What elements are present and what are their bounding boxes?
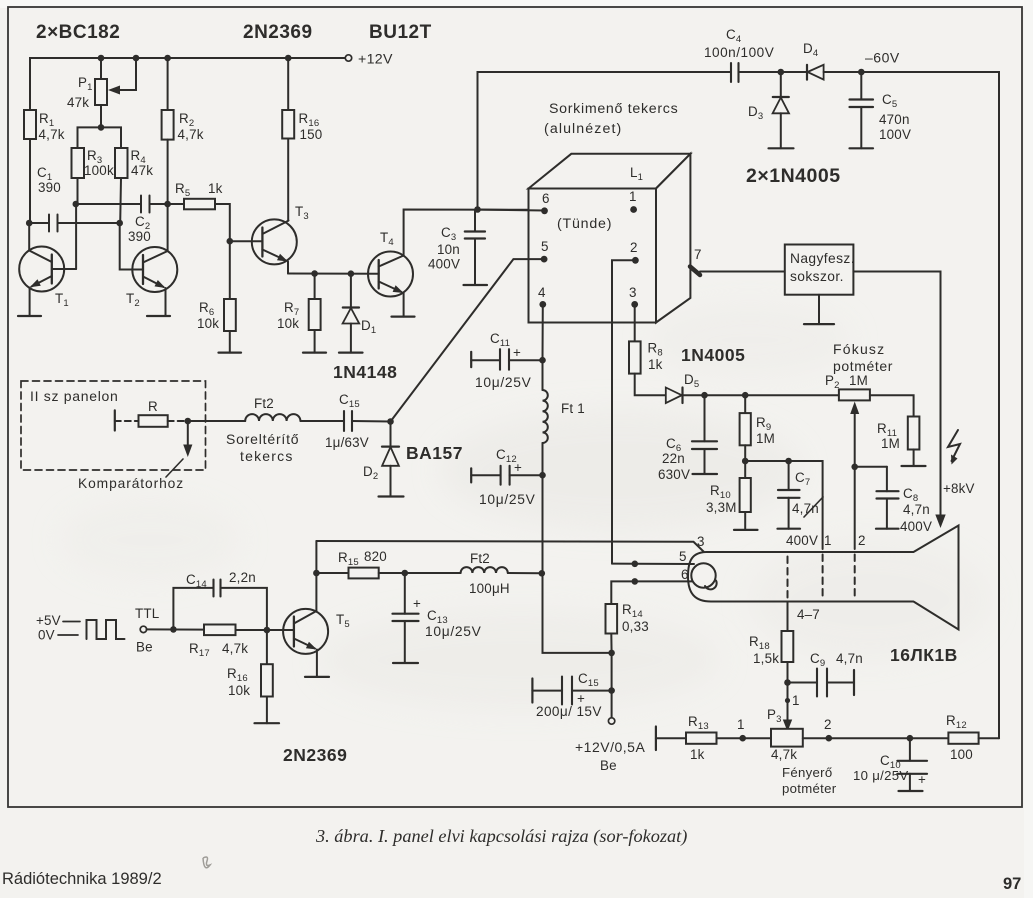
svg-text:10μ/25V: 10μ/25V xyxy=(479,492,536,507)
wire P2 wiper to pin2 column xyxy=(854,467,856,549)
wire -60V rail riser xyxy=(478,72,731,210)
wire collector row R15 xyxy=(316,572,348,574)
svg-text:3. ábra. I. panel elvi kapcsol: 3. ábra. I. panel elvi kapcsolási rajza … xyxy=(315,826,687,847)
node dots top rails xyxy=(26,55,865,277)
capacitor C6 xyxy=(692,395,717,474)
svg-text:4,7k: 4,7k xyxy=(222,641,248,656)
node dots middle xyxy=(185,357,859,479)
capacitor C1 xyxy=(49,215,120,232)
svg-text:6: 6 xyxy=(681,567,689,582)
svg-text:4,7n: 4,7n xyxy=(903,502,930,517)
svg-text:–60V: –60V xyxy=(865,50,900,66)
CRT 16LK1V envelope xyxy=(688,526,959,630)
svg-text:tekercs: tekercs xyxy=(240,448,294,464)
svg-text:potméter: potméter xyxy=(782,781,837,796)
svg-text:BA157: BA157 xyxy=(406,443,463,463)
capacitor C10 xyxy=(897,738,927,791)
node terminal +12V xyxy=(345,55,351,61)
transistor T2 xyxy=(120,204,178,316)
arrowhead HV at CRT xyxy=(935,515,945,529)
svg-text:3,3M: 3,3M xyxy=(706,500,737,515)
svg-text:1: 1 xyxy=(792,693,800,708)
transistor T3 xyxy=(230,219,297,273)
svg-text:TTL: TTL xyxy=(135,606,159,621)
svg-text:Ft2: Ft2 xyxy=(254,396,274,411)
capacitor C2 xyxy=(141,196,184,213)
svg-text:22n: 22n xyxy=(662,451,685,466)
resistor R16 10k xyxy=(261,630,273,723)
wire L1 pin 5 to diagonal xyxy=(391,259,545,421)
resistor R (II panel) xyxy=(139,415,168,427)
svg-text:10k: 10k xyxy=(228,683,250,698)
resistor R3 xyxy=(72,148,85,204)
svg-text:1: 1 xyxy=(824,533,832,548)
svg-text:+: + xyxy=(918,772,926,787)
wire to L1 pin 6 xyxy=(478,210,545,211)
svg-text:+5V: +5V xyxy=(36,613,61,628)
diode D3 xyxy=(773,72,789,148)
svg-text:47k: 47k xyxy=(67,95,89,110)
resistor R5 xyxy=(184,199,230,241)
resistor R15 xyxy=(349,568,405,579)
pin 7 stub xyxy=(690,267,700,276)
inductor Ft2 100uH xyxy=(461,567,508,573)
resistor R11 xyxy=(908,417,920,467)
svg-text:5: 5 xyxy=(541,239,549,254)
svg-text:Sorkimenő tekercs: Sorkimenő tekercs xyxy=(549,101,678,117)
svg-text:Be: Be xyxy=(600,758,617,773)
svg-text:2: 2 xyxy=(630,240,638,255)
transistor T5 xyxy=(283,609,328,677)
resistor R1 xyxy=(24,110,36,139)
dashed electrode 1 xyxy=(822,555,824,599)
diode D4 xyxy=(781,65,862,80)
svg-text:400V: 400V xyxy=(428,257,460,272)
smudge artifact xyxy=(203,857,210,868)
svg-text:potméter: potméter xyxy=(833,358,893,374)
svg-text:1k: 1k xyxy=(690,747,705,762)
svg-text:7: 7 xyxy=(694,247,702,262)
svg-text:R: R xyxy=(148,399,158,414)
svg-text:390: 390 xyxy=(128,229,151,244)
svg-text:100k: 100k xyxy=(84,163,114,178)
svg-text:Komparátorhoz: Komparátorhoz xyxy=(78,476,184,491)
svg-text:150: 150 xyxy=(300,127,323,142)
svg-text:820: 820 xyxy=(364,549,387,564)
svg-text:II sz panelon: II sz panelon xyxy=(30,388,119,404)
wire TTL to R17 xyxy=(147,628,204,630)
ground T1 xyxy=(18,315,41,317)
svg-text:400V: 400V xyxy=(786,533,818,548)
wire +12V top rail xyxy=(30,58,345,110)
ground D1 xyxy=(339,352,363,354)
inductor Ft2 deflection xyxy=(245,414,300,421)
node dots bottom left xyxy=(170,570,408,634)
wire CRT pin5 xyxy=(612,563,694,565)
svg-text:4,7k: 4,7k xyxy=(39,127,65,142)
ground R6 xyxy=(219,352,242,354)
transistor T4 xyxy=(368,210,543,317)
svg-text:10μ/25V: 10μ/25V xyxy=(475,375,532,390)
wire P1 to R3 R4 xyxy=(78,127,122,148)
resistor R10 xyxy=(740,461,751,530)
svg-text:Rádiótechnika 1989/2: Rádiótechnika 1989/2 xyxy=(2,870,162,888)
svg-text:+12V/0,5A: +12V/0,5A xyxy=(575,739,645,755)
wire node to Ft2 coil xyxy=(188,420,245,422)
svg-text:Ft2: Ft2 xyxy=(470,551,490,566)
wire oscillator upper (C2 row) xyxy=(76,203,140,205)
ground R10 xyxy=(734,529,758,531)
wire CRT pin6 to R14 xyxy=(611,581,692,604)
arrow to comparator xyxy=(166,421,192,477)
svg-text:10 μ/25V: 10 μ/25V xyxy=(853,768,908,783)
svg-text:Be: Be xyxy=(136,640,153,655)
capacitor C7 xyxy=(778,461,800,529)
CRT heater curl xyxy=(705,581,717,590)
ground multiplier xyxy=(804,323,834,325)
lightning bolt symbol xyxy=(948,430,960,461)
svg-text:100V: 100V xyxy=(879,127,911,142)
svg-text:470n: 470n xyxy=(879,112,910,127)
svg-text:97: 97 xyxy=(1003,875,1021,893)
resistor R12 xyxy=(948,733,999,744)
capacitor C14 loop xyxy=(173,580,267,631)
wire dashed R to node xyxy=(168,420,188,422)
potentiometer P3 xyxy=(771,729,948,747)
wire T-bar to R13 xyxy=(656,737,686,739)
terminal bar R13 left xyxy=(655,727,657,751)
svg-text:Fényerő: Fényerő xyxy=(782,765,832,780)
resistor R9 xyxy=(740,395,751,461)
svg-text:Ft 1: Ft 1 xyxy=(561,401,585,416)
terminal bar left of R xyxy=(114,410,116,430)
wire R1 lower lead xyxy=(29,139,31,223)
node dots CRT and bottom right xyxy=(539,561,914,742)
ground T4 xyxy=(392,316,415,318)
square wave symbol xyxy=(63,621,80,623)
potentiometer P1 xyxy=(95,58,136,127)
svg-text:630V: 630V xyxy=(658,467,690,482)
svg-text:6: 6 xyxy=(542,191,550,206)
wire R9 R10 node to C7 and pin1 xyxy=(745,461,822,549)
resistor R13 xyxy=(686,733,771,744)
ground C8 xyxy=(876,528,899,530)
svg-text:+: + xyxy=(413,596,421,611)
svg-text:5: 5 xyxy=(679,549,687,564)
svg-text:BU12T: BU12T xyxy=(369,22,432,43)
resistor R14 xyxy=(606,604,618,653)
svg-text:10k: 10k xyxy=(277,316,299,331)
svg-text:sokszor.: sokszor. xyxy=(790,269,844,284)
svg-text:1N4005: 1N4005 xyxy=(681,345,745,365)
transformer L1 box xyxy=(529,154,691,323)
svg-text:10μ/25V: 10μ/25V xyxy=(425,624,482,639)
capacitor C4 xyxy=(731,63,781,82)
wire coil to C15 xyxy=(301,420,344,422)
wire CRT pin3 (T5 collector line) xyxy=(316,541,704,552)
capacitor C5 xyxy=(850,72,874,148)
resistor R17 xyxy=(204,625,294,636)
svg-text:1: 1 xyxy=(737,717,745,732)
svg-text:100n/100V: 100n/100V xyxy=(704,45,774,60)
svg-text:2: 2 xyxy=(858,533,866,548)
svg-text:16ЛК1В: 16ЛК1В xyxy=(890,645,958,665)
svg-text:4–7: 4–7 xyxy=(797,607,820,622)
resistor R8 xyxy=(629,341,665,395)
HV multiplier box Nagyfesz sokszor xyxy=(785,245,854,295)
svg-text:1: 1 xyxy=(629,189,637,204)
resistor R7 xyxy=(309,274,321,353)
svg-text:1μ/63V: 1μ/63V xyxy=(325,435,369,450)
ground R7 xyxy=(303,352,326,354)
CRT heater circle xyxy=(691,563,715,587)
diode D2 BA157 xyxy=(382,422,399,497)
svg-text:+: + xyxy=(514,460,522,475)
svg-text:4,7n: 4,7n xyxy=(836,651,863,666)
svg-text:+8kV: +8kV xyxy=(943,481,975,496)
wire supply node to +12V terminal xyxy=(611,653,613,718)
wire oscillator lower (C1 row) xyxy=(29,222,48,224)
svg-text:2×1N4005: 2×1N4005 xyxy=(746,165,841,187)
wire T3 emitter row xyxy=(288,273,379,275)
svg-text:200μ/ 15V: 200μ/ 15V xyxy=(536,704,602,719)
svg-text:0V: 0V xyxy=(38,628,55,643)
label pointer slash C7 xyxy=(804,497,823,517)
potentiometer P2 xyxy=(839,389,914,466)
wire T5 collector riser xyxy=(315,541,317,611)
svg-text:(alulnézet): (alulnézet) xyxy=(544,121,622,137)
ground T5 xyxy=(305,676,329,678)
svg-text:4,7n: 4,7n xyxy=(792,501,819,516)
svg-text:1M: 1M xyxy=(756,431,775,446)
svg-text:1M: 1M xyxy=(881,436,900,451)
wire R18 to P3 wiper xyxy=(783,683,792,732)
svg-text:2×BC182: 2×BC182 xyxy=(36,22,120,43)
inductor Ft1 xyxy=(543,360,548,475)
svg-text:3: 3 xyxy=(697,534,705,549)
capacitor C8 xyxy=(877,467,899,529)
wire pin4 column down to supply corner xyxy=(543,475,612,653)
svg-text:+12V: +12V xyxy=(358,52,393,68)
svg-text:1,5k: 1,5k xyxy=(753,651,779,666)
ground C5 xyxy=(850,147,874,149)
svg-text:390: 390 xyxy=(38,180,61,195)
wire R15 to Ft2 xyxy=(405,572,461,574)
svg-text:2,2n: 2,2n xyxy=(229,570,256,585)
capacitor C9 xyxy=(788,669,855,697)
wire D5 to P2 xyxy=(705,394,839,396)
dashed box II sz panelon xyxy=(21,381,206,470)
capacitor C15 200u xyxy=(532,677,611,705)
wire L1 pin 2 riser down xyxy=(612,260,635,563)
resistor R2 xyxy=(162,58,174,204)
svg-text:4: 4 xyxy=(538,285,546,300)
diode D5 xyxy=(666,388,705,404)
wire -60V to right edge xyxy=(861,72,999,738)
transistor T1 xyxy=(19,204,76,316)
resistor R4 xyxy=(115,148,128,223)
svg-text:2N2369: 2N2369 xyxy=(243,22,313,43)
svg-text:Fókusz: Fókusz xyxy=(833,341,885,357)
svg-text:Nagyfesz.: Nagyfesz. xyxy=(790,251,855,266)
capacitor C3 xyxy=(465,210,485,286)
ground C7 xyxy=(778,528,801,530)
wire L1 pin 4 down xyxy=(542,304,544,360)
wire pin7 to multiplier box xyxy=(700,271,785,273)
ground C13 xyxy=(393,662,418,664)
svg-text:4,7k: 4,7k xyxy=(178,127,204,142)
resistor R6 xyxy=(224,241,236,352)
ground R11 xyxy=(902,465,926,467)
resistor R16 150 xyxy=(282,58,294,221)
svg-text:2N2369: 2N2369 xyxy=(283,745,347,765)
svg-text:1k: 1k xyxy=(208,181,223,196)
wire HV output to CRT anode xyxy=(853,272,940,519)
svg-text:0,33: 0,33 xyxy=(622,619,649,634)
wire dashed to R xyxy=(115,420,139,422)
resistor R18 xyxy=(782,631,794,683)
ground D2 xyxy=(379,495,404,497)
node L1 pin dots xyxy=(539,206,638,308)
svg-text:+: + xyxy=(513,345,521,360)
capacitor C13 xyxy=(393,573,419,663)
diode D1 xyxy=(343,274,360,353)
svg-text:1M: 1M xyxy=(849,373,868,388)
dashed electrode 4-7 xyxy=(787,557,789,599)
svg-text:2: 2 xyxy=(824,717,832,732)
dashed electrode 2 xyxy=(854,555,856,599)
capacitor C12 xyxy=(471,466,542,485)
svg-text:1N4148: 1N4148 xyxy=(333,362,397,382)
wire Ft2 to supply column xyxy=(508,572,542,574)
wire multiplier ground stub xyxy=(818,295,820,324)
capacitor C11 xyxy=(471,349,542,370)
svg-text:400V: 400V xyxy=(900,519,932,534)
svg-text:Soreltérítő: Soreltérítő xyxy=(226,431,299,447)
capacitor C15 1u63V xyxy=(344,411,391,431)
ground C3 xyxy=(464,284,488,286)
svg-text:4,7k: 4,7k xyxy=(771,747,797,762)
svg-text:3: 3 xyxy=(629,285,637,300)
svg-text:10k: 10k xyxy=(197,316,219,331)
ground D3 xyxy=(769,147,794,149)
ground R16 xyxy=(255,722,280,724)
node terminal +12V input xyxy=(608,718,614,724)
wire wiper node to C8 xyxy=(855,466,887,468)
wire L1 pin 3 down to R8 xyxy=(634,304,636,341)
svg-text:10n: 10n xyxy=(437,242,460,257)
wire cathode 4-7 to R18 xyxy=(787,602,789,632)
node terminal TTL Be xyxy=(140,626,146,632)
ground C10 xyxy=(899,790,923,792)
ground C6 xyxy=(693,473,718,475)
svg-text:100μH: 100μH xyxy=(469,581,510,596)
ground T2 xyxy=(147,315,170,317)
svg-text:(Tünde): (Tünde) xyxy=(557,216,612,232)
svg-text:1k: 1k xyxy=(648,357,663,372)
svg-text:100: 100 xyxy=(950,747,973,762)
svg-text:47k: 47k xyxy=(131,163,153,178)
